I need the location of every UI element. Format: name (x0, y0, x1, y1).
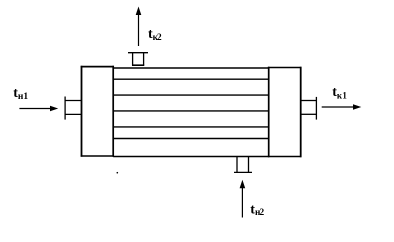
svg-text:tн2: tн2 (250, 202, 264, 218)
svg-text:tк1: tк1 (332, 85, 347, 100)
svg-text:tн1: tн1 (13, 86, 28, 102)
svg-text:tк2: tк2 (148, 27, 162, 43)
